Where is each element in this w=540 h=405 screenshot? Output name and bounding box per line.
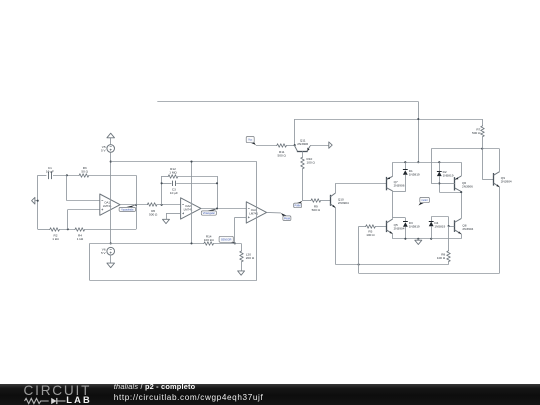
svg-text:200 Ω: 200 Ω <box>246 256 255 260</box>
svg-text:2N3904: 2N3904 <box>338 201 349 205</box>
svg-text:100 kΩ: 100 kΩ <box>204 238 215 242</box>
svg-text:2N3906: 2N3906 <box>297 142 308 146</box>
svg-text:SENSOR: SENSOR <box>221 238 232 241</box>
svg-text:1 MΩ: 1 MΩ <box>169 170 177 174</box>
svg-text:10 µF: 10 µF <box>46 170 54 174</box>
svg-text:motor: motor <box>421 199 428 202</box>
svg-text:500 Ω: 500 Ω <box>278 153 287 157</box>
svg-text:500 Ω: 500 Ω <box>312 208 321 212</box>
svg-text:2N3906: 2N3906 <box>394 184 405 188</box>
svg-text:100 Ω: 100 Ω <box>307 161 316 165</box>
svg-text:Vtriangular: Vtriangular <box>203 212 215 215</box>
svg-text:Vquadrada: Vquadrada <box>121 208 134 211</box>
svg-text:2N3904: 2N3904 <box>462 227 473 231</box>
svg-text:10 µF: 10 µF <box>170 191 178 195</box>
svg-text:LM741: LM741 <box>249 212 258 216</box>
svg-text:PWM: PWM <box>284 217 290 220</box>
svg-text:1N5819: 1N5819 <box>434 225 445 229</box>
svg-text:PWM: PWM <box>295 204 301 207</box>
svg-text:2N3904: 2N3904 <box>394 226 405 230</box>
svg-text:1 kΩ: 1 kΩ <box>77 237 84 241</box>
svg-text:100 Ω: 100 Ω <box>366 233 375 237</box>
svg-text:1N5819: 1N5819 <box>409 172 420 176</box>
svg-text:Vcc: Vcc <box>248 139 253 142</box>
svg-text:500 Ω: 500 Ω <box>149 212 158 216</box>
svg-text:100 Ω: 100 Ω <box>437 256 446 260</box>
svg-text:1N5819: 1N5819 <box>443 173 454 177</box>
svg-text:500 Ω: 500 Ω <box>472 131 481 135</box>
svg-text:50 Ω: 50 Ω <box>81 170 88 174</box>
svg-text:2N3906: 2N3906 <box>462 184 473 188</box>
svg-text:1 kΩ: 1 kΩ <box>52 237 59 241</box>
svg-text:1N5819: 1N5819 <box>409 225 420 229</box>
svg-text:2N3904: 2N3904 <box>501 179 512 183</box>
